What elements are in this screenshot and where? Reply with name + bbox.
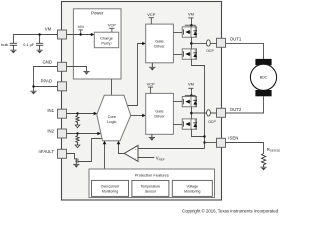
block Voltage Monitoring — [172, 180, 212, 196]
svg-text:BDC: BDC — [260, 76, 268, 80]
wire gate driver 2 to high side fet gate — [173, 101, 182, 103]
svg-text:Sensor: Sensor — [145, 189, 157, 193]
ground below gate driver 1 — [149, 63, 155, 71]
arrow IN1 into core logic — [94, 112, 98, 116]
ground below gate driver 2 — [149, 134, 155, 140]
node junction OUT2 — [190, 112, 193, 115]
node junction on VM wire — [38, 33, 40, 35]
wire GND external — [34, 67, 58, 91]
wire OUT1 to motor — [226, 43, 264, 59]
pin IN1 — [58, 109, 67, 118]
block Charge Pump — [94, 32, 118, 48]
svg-text:Power: Power — [91, 11, 104, 16]
pin ISEN — [217, 138, 226, 147]
svg-text:VCP: VCP — [147, 82, 155, 87]
capacitor 0.1uF — [36, 35, 43, 54]
arrow comparator output into core logic — [117, 141, 121, 145]
node VM rail tap upper bridge — [185, 11, 196, 27]
wire low side source to sense rail — [192, 59, 205, 148]
arrow into gate driver 1 — [142, 42, 146, 46]
wire comparator reference input — [138, 157, 154, 159]
svg-text:OUT1: OUT1 — [230, 37, 242, 42]
svg-text:PPAD: PPAD — [41, 78, 52, 83]
op-amp current sense comparator — [124, 145, 138, 161]
pin OUT2 — [217, 108, 226, 117]
wire fet4 source to sense rail — [192, 129, 205, 136]
wire power block to core logic — [111, 79, 113, 95]
ground below Rsense — [261, 167, 267, 170]
transistor Q1 nFAULT open drain — [75, 158, 78, 164]
node VCP tap above charge pump — [108, 22, 116, 32]
svg-text:VREF: VREF — [156, 156, 165, 162]
pin GND — [58, 62, 67, 71]
arrow into charge pump — [91, 33, 95, 37]
svg-text:Monitoring: Monitoring — [184, 189, 200, 193]
svg-text:+: + — [135, 147, 137, 151]
ground arrow IN1 — [75, 125, 80, 128]
ground external — [30, 91, 36, 94]
svg-text:OUT2: OUT2 — [230, 107, 242, 112]
svg-text:Monitoring: Monitoring — [102, 189, 118, 193]
svg-text:OCP: OCP — [206, 49, 214, 53]
block Gate Driver 1 — [146, 24, 174, 63]
svg-text:−: − — [135, 156, 137, 160]
block Power — [73, 9, 121, 79]
wire VM input net — [13, 34, 57, 36]
pin OUT1 — [217, 38, 226, 47]
block Protection Features — [89, 169, 215, 198]
node VCP tap above gate driver 1 — [147, 12, 155, 24]
svg-text:VCP: VCP — [108, 22, 116, 27]
svg-text:Logic: Logic — [107, 119, 116, 124]
wire drain-source node half-bridge 1 — [191, 37, 193, 49]
svg-text:VM: VM — [188, 82, 194, 87]
wire drain-source node half-bridge 2 — [191, 107, 193, 119]
block Gate Driver 2 — [146, 93, 174, 134]
block Temperature Sensor — [132, 180, 169, 196]
wire OUT2 mid node to pin — [191, 112, 216, 114]
wire OUT1 mid node to pin — [191, 42, 216, 44]
wire protection to core logic — [104, 143, 106, 170]
arrow into gate driver 2 — [142, 114, 146, 118]
wire nFAULT to open drain fet — [67, 154, 77, 159]
node junction sense rail fet4 — [203, 135, 205, 137]
wire core logic to gate driver 2 — [131, 115, 145, 117]
wire gate driver 1 to low side fet gate — [173, 54, 182, 56]
svg-text:OCP: OCP — [208, 120, 216, 124]
node junction OUT1 — [190, 42, 193, 45]
node junction sense rail ISEN — [203, 141, 205, 143]
wire comparator output to core logic — [119, 143, 125, 154]
node VCP tap above gate driver 2 — [147, 82, 155, 94]
pin nFAULT — [58, 149, 67, 158]
wire core logic to gate driver 1 — [127, 44, 144, 106]
wire IN1 to core logic — [67, 113, 96, 115]
node junction GND/PPAD — [32, 85, 34, 87]
ground inside power block — [83, 71, 89, 74]
svg-text:IN2: IN2 — [47, 128, 54, 133]
wire nFAULT gate from core logic — [78, 139, 102, 162]
svg-text:VM: VM — [45, 26, 52, 31]
svg-text:VCP: VCP — [147, 12, 155, 17]
wire gate driver 2 to low side fet gate — [173, 124, 182, 126]
pin VM — [58, 30, 67, 39]
transistor Q3 low side half-bridge 1 — [182, 49, 197, 59]
svg-text:nFAULT: nFAULT — [39, 149, 55, 154]
wire VM into charge pump — [67, 34, 93, 36]
block Core Logic hexagon — [97, 95, 131, 140]
motor BDC body — [250, 64, 276, 90]
node junction IN1 pulldown — [76, 112, 78, 114]
svg-text:bulk: bulk — [1, 42, 8, 47]
svg-text:Copyright © 2016, Texas Instru: Copyright © 2016, Texas Instruments Inco… — [182, 209, 279, 214]
chip outline U1 — [62, 2, 222, 201]
arrow IN2 into core logic — [97, 132, 101, 136]
wire IN2 to core logic — [67, 133, 100, 135]
wire PPAD external — [34, 86, 58, 88]
motor BDC terminal top — [255, 59, 271, 65]
capacitor bulk — [10, 35, 17, 54]
svg-text:Voltage: Voltage — [186, 184, 198, 188]
wire GND inside power block — [67, 67, 87, 72]
svg-text:Temperature: Temperature — [141, 184, 161, 188]
svg-text:ISEN: ISEN — [228, 136, 238, 141]
wire gate driver 1 to high side fet gate — [173, 32, 182, 34]
wire sense rail to ISEN pin — [205, 142, 217, 144]
pin IN2 — [58, 129, 67, 138]
resistor Rsense — [262, 154, 266, 168]
svg-text:Overcurrent: Overcurrent — [101, 184, 120, 188]
transistor Q2 high side half-bridge 1 — [182, 27, 197, 37]
transistor Q4 high side half-bridge 2 — [182, 97, 197, 107]
resistor pulldown IN1 — [76, 114, 79, 126]
svg-text:Pump: Pump — [101, 40, 111, 45]
svg-text:IN1: IN1 — [47, 108, 54, 113]
block Overcurrent Monitoring — [92, 180, 129, 196]
svg-text:RSENSE: RSENSE — [267, 147, 280, 153]
pin PPAD — [58, 82, 67, 91]
svg-text:GND: GND — [42, 59, 52, 64]
svg-text:Driver: Driver — [154, 113, 165, 118]
ground arrow IN2 — [75, 145, 80, 148]
svg-text:VM: VM — [78, 24, 84, 29]
ground nFAULT fet — [73, 164, 79, 167]
svg-text:Driver: Driver — [154, 44, 165, 49]
wire motor to OUT2 — [226, 96, 264, 113]
current sensor OCP 2 — [207, 110, 211, 116]
wire ISEN to sense resistor — [226, 143, 264, 154]
svg-text:VM: VM — [188, 11, 194, 16]
resistor pulldown IN2 — [76, 134, 79, 146]
svg-text:Protection Features: Protection Features — [135, 172, 169, 177]
node junction IN2 pulldown — [76, 132, 78, 134]
svg-text:0.1 µF: 0.1 µF — [23, 42, 35, 47]
node VM tap in power block — [78, 24, 84, 36]
motor BDC terminal bottom — [255, 90, 271, 96]
current sensor OCP 1 — [207, 40, 211, 46]
arrow protection into core logic — [103, 141, 107, 145]
node VM rail tap lower bridge — [185, 82, 196, 97]
transistor Q5 low side half-bridge 2 — [182, 119, 197, 129]
wire sense rail to comparator input — [138, 148, 205, 150]
